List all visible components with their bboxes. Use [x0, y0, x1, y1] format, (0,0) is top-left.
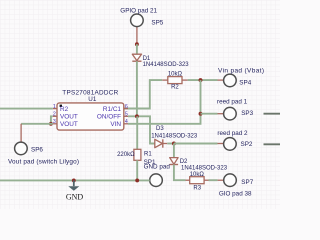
solder pad SP5 — [120, 8, 163, 27]
junction D3/D2/SP2 — [172, 142, 176, 146]
wire R1/C1 net: pin6 to R2 left — [124, 80, 162, 108]
svg-text:VIN: VIN — [110, 121, 121, 128]
svg-text:4: 4 — [125, 119, 128, 125]
wire R2 right to SP4 — [188, 79, 218, 81]
ground symbol GND — [66, 180, 84, 201]
junction Vin net — [199, 78, 203, 82]
svg-text:10kΩ: 10kΩ — [190, 172, 205, 178]
svg-text:VOUT: VOUT — [60, 121, 78, 128]
diode D1 1N4148SOD-323 — [132, 54, 189, 68]
resistor R3 10k — [186, 172, 209, 191]
wire to SP3 — [201, 113, 218, 115]
wire GND rail — [0, 179, 150, 181]
wire D1 cathode down to ON/OFF net — [136, 61, 138, 116]
pin 4 stub — [124, 123, 128, 125]
svg-text:R3: R3 — [193, 185, 201, 191]
junction GND symbol — [72, 178, 76, 182]
solder pad SP2 — [217, 130, 252, 150]
svg-text:R2: R2 — [171, 85, 179, 91]
pin 5 stub — [124, 115, 128, 117]
wire VOUT net to SP6 — [21, 123, 53, 125]
solder pad SP1 — [144, 159, 171, 187]
svg-text:6: 6 — [125, 104, 128, 110]
svg-text:D3: D3 — [156, 126, 164, 132]
svg-text:5: 5 — [125, 112, 128, 118]
wire junction down to D2 — [173, 144, 175, 158]
svg-text:10kΩ: 10kΩ — [168, 72, 183, 78]
svg-text:1N4148SOD-323: 1N4148SOD-323 — [143, 62, 190, 68]
solder pad SP4 — [218, 68, 264, 87]
svg-text:SP7: SP7 — [241, 179, 253, 186]
wire stub right of SP3 — [264, 113, 281, 115]
pin stub SP2 — [218, 143, 224, 145]
svg-text:GND: GND — [66, 193, 84, 202]
wire ON/OFF net pin5 to D3 — [128, 116, 155, 143]
junction on GPIO net — [135, 42, 139, 46]
svg-text:Vin pad (Vbat): Vin pad (Vbat) — [218, 68, 264, 75]
junction R1/GND — [135, 178, 139, 182]
svg-text:SP3: SP3 — [241, 110, 253, 117]
svg-text:SP4: SP4 — [239, 79, 251, 86]
svg-text:1N4148SOD-323: 1N4148SOD-323 — [181, 165, 228, 171]
resistor R2 10k — [162, 72, 187, 91]
wire GPIO net to D1 anode — [136, 44, 138, 54]
svg-text:1N4148SOD-323: 1N4148SOD-323 — [151, 134, 198, 140]
pin stub SP4 — [218, 79, 224, 81]
wire D3 cathode to junction — [167, 143, 174, 145]
junction ON/OFF net — [135, 114, 139, 118]
svg-text:GIO pad 38: GIO pad 38 — [219, 191, 252, 198]
svg-text:VOUT: VOUT — [60, 114, 78, 121]
wire VOUT tie pins 2-3 — [51, 116, 53, 124]
diode D2 1N4148SOD-323 — [170, 158, 228, 172]
wire net GPIO: SP5 pin stub down — [136, 27, 138, 45]
pin stub SP6 — [20, 124, 22, 142]
pin 2 stub — [53, 115, 57, 117]
svg-text:U1: U1 — [88, 96, 97, 103]
svg-text:3: 3 — [53, 119, 56, 125]
svg-text:reed pad 2: reed pad 2 — [217, 130, 248, 137]
svg-text:ON/OFF: ON/OFF — [97, 114, 121, 121]
pin stub SP7 — [218, 179, 224, 181]
wire R3 to SP7 — [209, 179, 218, 181]
pin 1 stub — [53, 108, 57, 110]
svg-text:220kΩ: 220kΩ — [117, 152, 135, 158]
IC U1 TPS27081ADDCR — [57, 89, 124, 130]
svg-text:SP6: SP6 — [31, 146, 43, 153]
wire junction to SP2 — [174, 143, 218, 145]
svg-text:2: 2 — [53, 112, 56, 118]
wire D2 cathode to R3 — [174, 165, 186, 181]
wire stub right of SP2 — [264, 143, 281, 145]
diode D3 1N4148SOD-323 — [151, 126, 198, 148]
solder pad SP3 — [217, 98, 254, 120]
svg-text:D2: D2 — [180, 159, 188, 165]
svg-text:1: 1 — [53, 104, 56, 110]
svg-text:SP2: SP2 — [241, 141, 253, 148]
svg-text:reed pad 1: reed pad 1 — [217, 98, 248, 105]
junction reed1 branch — [199, 112, 203, 116]
svg-text:GND pad: GND pad — [144, 164, 171, 171]
wire pin1 net to left edge — [0, 108, 53, 110]
solder pad SP6 — [8, 142, 79, 165]
svg-text:R2: R2 — [60, 106, 69, 113]
svg-text:R1: R1 — [144, 152, 152, 158]
junction VOUT — [49, 122, 53, 126]
wire VIN net vertical riser — [128, 80, 201, 124]
svg-text:Vout pad (switch Lilygo): Vout pad (switch Lilygo) — [8, 158, 79, 165]
pin 6 stub — [124, 108, 128, 110]
svg-text:GPIO pad 21: GPIO pad 21 — [120, 8, 157, 15]
pin stub SP3 — [218, 113, 224, 115]
svg-text:SP5: SP5 — [151, 20, 163, 27]
svg-text:R1/C1: R1/C1 — [103, 106, 122, 113]
pin 3 stub — [53, 123, 57, 125]
resistor R1 220k — [117, 116, 152, 180]
solder pad SP7 — [219, 174, 254, 198]
